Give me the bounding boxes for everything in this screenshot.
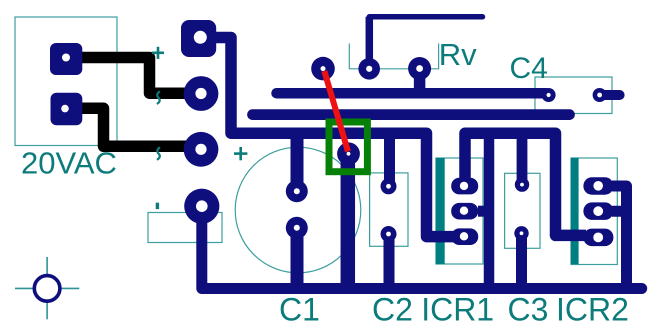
wire C2 bottom stub [384, 234, 395, 288]
pad top square [181, 20, 216, 57]
wire ICR2 right riser with pad stubs [612, 186, 627, 288]
ratsnest red line [324, 71, 348, 152]
pad C3 b [514, 226, 528, 240]
pad C4 B [593, 88, 607, 102]
pad J1-1 (square) [50, 43, 82, 75]
wire C4 pad B stub [600, 90, 620, 100]
mark tick near R3 [156, 203, 159, 209]
pad C2 a [381, 178, 397, 194]
pad ratline origin [311, 57, 335, 81]
pad ICR2-3 [583, 229, 613, 247]
IC ICR1 bar [436, 158, 445, 264]
svg-text:C2: C2 [372, 292, 413, 328]
pad ICR1-3 [451, 228, 478, 245]
pad J1-2 (square) [51, 93, 83, 126]
pad C3 a [515, 177, 529, 191]
wire staple: ICR1 pad1 up, across, down to ICR2 pad3 [465, 133, 586, 235]
wire R3 pad down + bottom bus [202, 210, 642, 289]
pad R3 (round) [184, 189, 219, 224]
wire C3 top riser [517, 133, 528, 184]
svg-text:Rv: Rv [439, 37, 477, 72]
drill holes [61, 31, 603, 243]
capacitor C3 outline [505, 173, 540, 248]
wire: top pad elbow, bus3, down riser to bottom bus [216, 38, 458, 237]
mark plus near J1-1 [152, 47, 164, 59]
mark brace 2 [157, 147, 160, 160]
wire thin top net vertical [366, 17, 374, 69]
IC ICR2 outline [571, 158, 617, 265]
pad C4 A [542, 88, 556, 102]
connector R3 outline [148, 213, 222, 243]
mark plus near C1 [234, 147, 247, 160]
wire Rv pad B to bus1 [414, 69, 426, 91]
wire C1 pad b stub [291, 228, 304, 288]
capacitor C2 outline [370, 173, 408, 246]
svg-text:20VAC: 20VAC [21, 146, 117, 181]
pad C1 b [286, 217, 308, 239]
wire bus2 [253, 109, 570, 120]
svg-text:C1: C1 [279, 292, 320, 328]
wire bottom-layer T1 [81, 58, 196, 94]
highlight green square [329, 122, 367, 172]
wire C1 pad a stub [291, 133, 304, 191]
connector J1 outline (20VAC) [15, 17, 117, 146]
IC ICR1 outline [436, 158, 483, 264]
wire green-node riser [341, 154, 356, 289]
pad C2 b [381, 226, 397, 242]
pad C1 a [286, 180, 308, 202]
pad R2 (round) [184, 132, 219, 167]
wire C2 top stub [384, 133, 395, 186]
svg-text:ICR1: ICR1 [421, 292, 494, 328]
crosshair origin marker circle [34, 276, 60, 302]
pad ICR1-2 [451, 203, 478, 220]
wire bus1 [277, 88, 547, 99]
pad highlighted node [337, 142, 360, 165]
wire riser right of ICR1 [484, 133, 495, 288]
pad Rv B [408, 57, 431, 80]
resistor Rv outline [349, 44, 438, 69]
pad Rv A [358, 58, 380, 80]
capacitor C1 outline [235, 147, 361, 273]
wire thin top net horizontal [369, 14, 482, 20]
pad ICR1-1 [451, 178, 478, 195]
pad R1 (round) [184, 76, 219, 111]
IC ICR2 bar [571, 158, 579, 264]
svg-text:C3: C3 [508, 292, 549, 328]
capacitor C4 outline [535, 77, 612, 114]
wire C3 bottom stub [516, 233, 527, 288]
wire bottom-layer T2 [80, 108, 196, 146]
pad ICR2-1 [583, 177, 613, 195]
wire branch to ICR1 pad2 [478, 206, 489, 217]
crosshair origin marker lines [15, 257, 79, 319]
svg-text:C4: C4 [510, 52, 548, 85]
pad ICR2-2 [583, 202, 613, 220]
svg-text:ICR2: ICR2 [556, 292, 629, 328]
mark brace 1 [157, 91, 160, 104]
